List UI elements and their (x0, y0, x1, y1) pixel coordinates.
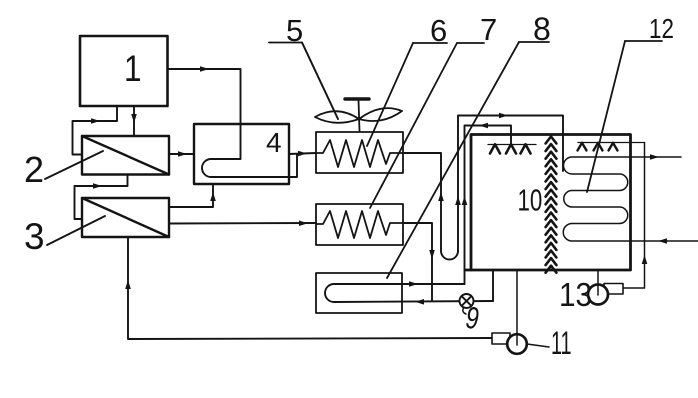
air cooler 6 (316, 132, 403, 173)
underline of label 8 (519, 41, 549, 43)
pipe: box3 to box2 (75, 175, 128, 220)
pipe: cooler 7 outlet down to valve line (403, 223, 432, 301)
pump 11 (492, 333, 527, 354)
U trap (441, 251, 458, 260)
pipe: box3 up into exchanger 4 (169, 184, 213, 207)
left spray header (488, 144, 536, 146)
pipe: tower bottom to pump 13 (597, 270, 599, 295)
flow arrow into cooler 7 (299, 221, 308, 227)
pump 13 (588, 284, 623, 305)
svg-text:12: 12 (649, 14, 674, 45)
spray nozzle left 1 (490, 144, 500, 153)
leader line for label 6 (367, 43, 413, 146)
tube inside exchanger 4 (202, 124, 297, 177)
heat exchanger 4 (194, 124, 289, 184)
leader line for label 12 (587, 41, 625, 192)
pipe: box2 to exchanger 4 (169, 153, 194, 155)
tower 10 shell (465, 135, 631, 271)
pipe: right spray riser from pump 13 (622, 143, 645, 289)
heat exchanger 8 (316, 273, 402, 313)
right spray header (578, 142, 645, 144)
flow arrow left on exchanger 8 bottom tube (415, 299, 424, 305)
svg-text:2: 2 (24, 149, 44, 190)
pipe: tower bottom to pump 11 (516, 270, 518, 345)
underline of label 12 (625, 40, 662, 42)
pipe: box1 right outlet to exchanger 4 tube (168, 69, 241, 124)
pipe: tower drain to valve (492, 271, 494, 301)
flow arrow right on box1 outlet (200, 66, 209, 72)
svg-text:10: 10 (518, 183, 543, 217)
packing column chevrons (546, 137, 557, 273)
leader line for label 5 (302, 43, 338, 120)
pipe: trap riser to tower top (458, 116, 563, 252)
flow arrow down into box2 (131, 114, 137, 123)
pipe: box1 down to box2 (133, 106, 135, 136)
pipe: box3 to cooler 7 (169, 222, 316, 225)
flow arrow right on return pipe (91, 118, 100, 124)
pipe: bottom return line to box3 (128, 237, 492, 339)
pipe: exchanger 4 outlet to cooler 6 (289, 153, 316, 154)
underline of label 7 (457, 42, 484, 44)
underline of label 6 (413, 42, 447, 44)
fan 5 (315, 99, 402, 131)
flow arrow right on coil 12 outlet (650, 154, 659, 160)
svg-text:4: 4 (266, 127, 282, 158)
coil 12 serpentine (563, 157, 698, 241)
flow arrow right between box3 and box2 (93, 183, 102, 189)
spray nozzle left 3 (521, 144, 531, 153)
pipe: exchanger 8 riser to spray header (465, 126, 512, 285)
flow arrow down on cooler 7 drop (429, 250, 435, 259)
flow arrow up on bottom return (125, 280, 131, 289)
flow arrow up on right spray riser (642, 255, 648, 264)
spray nozzle right 1 (578, 143, 587, 151)
flow arrow right on exchanger 8 top tube (409, 281, 418, 287)
tube inside exchanger 8 with outlet line (325, 284, 493, 302)
desiccant unit 2 (82, 136, 169, 175)
spray nozzle left 2 (506, 144, 516, 153)
valve 9 (460, 294, 474, 314)
leader line for label 2 (45, 151, 103, 179)
svg-text:1: 1 (124, 49, 141, 90)
flow arrow left on coil 12 inlet (658, 238, 667, 244)
air cooler 7 (316, 204, 403, 245)
pipe: box2 return to box1 (73, 106, 118, 155)
flow arrow left on spray feed header (479, 123, 488, 129)
spray nozzle right 3 (609, 143, 618, 151)
flow arrow on trap downcomer (438, 192, 444, 201)
desiccant unit 3 (82, 198, 169, 237)
svg-text:13: 13 (559, 277, 592, 314)
flow arrow into exchanger 4 (178, 151, 187, 157)
flow arrow up into exchanger 4 (210, 192, 216, 201)
svg-text:7: 7 (480, 12, 497, 47)
svg-text:3: 3 (24, 216, 45, 257)
flow arrow up on exchanger 8 riser (462, 196, 468, 205)
flow arrow right on tower top pipe (499, 113, 508, 119)
box 1 (80, 36, 168, 106)
pipe: cooler 6 outlet down to trap (403, 153, 441, 251)
underline of label 5 (269, 42, 302, 44)
leader line for label 3 (47, 216, 105, 245)
leader line for label 11 (527, 344, 549, 347)
flow arrow up on trap riser (455, 196, 461, 205)
leader line for label 7 (370, 43, 457, 208)
leader line for label 8 (387, 42, 519, 278)
svg-text:11: 11 (551, 325, 572, 361)
spray nozzle right 2 (594, 143, 603, 151)
flow arrow into cooler 6 (298, 151, 307, 157)
